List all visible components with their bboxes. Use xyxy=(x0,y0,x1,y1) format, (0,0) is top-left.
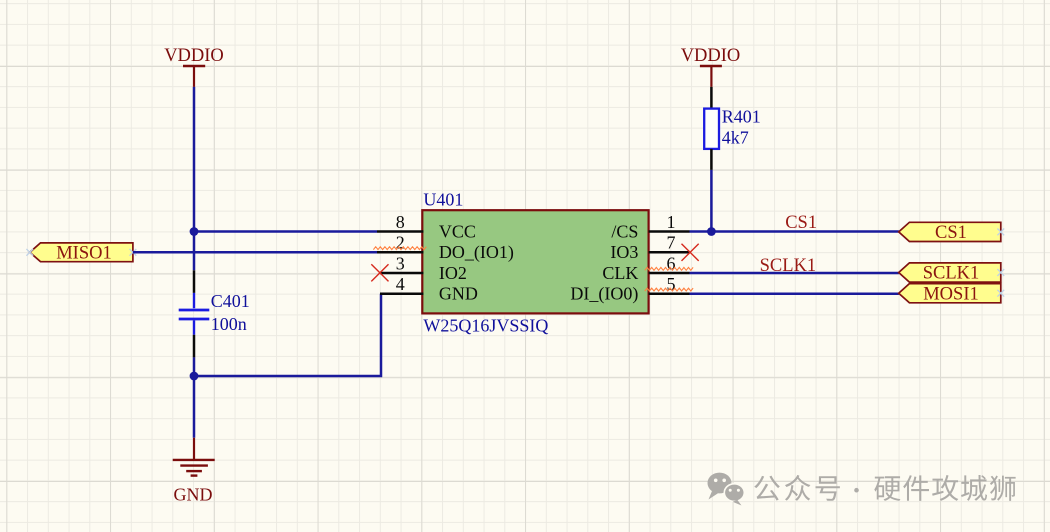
watermark separator dot xyxy=(854,488,859,493)
svg-text:CLK: CLK xyxy=(602,263,638,283)
no-ERC red cross pin 3 xyxy=(371,264,388,281)
junction dot GND node xyxy=(190,372,199,381)
compile squiggle pin 6 xyxy=(645,267,693,270)
port MISO1 xyxy=(30,243,133,262)
wire resistor to CS node xyxy=(710,170,713,232)
junction dot CS node xyxy=(707,227,716,236)
svg-text:VCC: VCC xyxy=(439,221,476,241)
pale cross markers MISO1 xyxy=(26,249,33,256)
capacitor C401 pin 2 (black) xyxy=(193,335,196,358)
ground symbol bars xyxy=(173,459,215,461)
svg-text:GND: GND xyxy=(174,485,213,505)
svg-text:2: 2 xyxy=(396,233,405,253)
wire MOSI1 xyxy=(690,293,899,296)
wire GND node to pin 4 xyxy=(194,294,381,376)
svg-text:100n: 100n xyxy=(211,314,247,334)
svg-text:IO3: IO3 xyxy=(610,242,638,262)
capacitor C401 body xyxy=(193,293,195,308)
svg-text:3: 3 xyxy=(396,253,405,273)
svg-text:IO2: IO2 xyxy=(439,263,467,283)
svg-text:VDDIO: VDDIO xyxy=(681,46,741,66)
svg-text:DI_(IO0): DI_(IO0) xyxy=(570,284,638,305)
wire VDDIO rail vertical (left) xyxy=(193,87,196,270)
wire SCLK1 xyxy=(690,272,899,275)
svg-text:7: 7 xyxy=(667,233,676,253)
wire CS1 xyxy=(690,230,899,233)
svg-text:MOSI1: MOSI1 xyxy=(923,284,979,304)
svg-text:8: 8 xyxy=(396,212,405,232)
svg-text:SCLK1: SCLK1 xyxy=(760,256,817,276)
svg-text:1: 1 xyxy=(667,212,676,232)
svg-text:GND: GND xyxy=(439,284,478,304)
pale cross markers CS1 xyxy=(997,229,1004,236)
svg-text:/CS: /CS xyxy=(611,221,638,241)
wire cap to gnd node xyxy=(193,357,196,437)
svg-text:VDDIO: VDDIO xyxy=(164,46,224,66)
pin 3 (IO2) left xyxy=(380,272,423,275)
compile squiggle pin 5 xyxy=(645,288,693,291)
wire VCC net to pin 8 xyxy=(194,230,377,233)
svg-text:4: 4 xyxy=(396,274,405,294)
svg-text:U401: U401 xyxy=(423,190,463,210)
svg-text:R401: R401 xyxy=(722,106,761,126)
junction dot at VDDIO/VCC node xyxy=(190,227,199,236)
pin 8 (VCC) left xyxy=(377,230,423,233)
resistor R401 body xyxy=(704,109,719,149)
svg-text:MISO1: MISO1 xyxy=(56,243,112,263)
svg-text:W25Q16JVSSIQ: W25Q16JVSSIQ xyxy=(423,316,548,336)
pale cross markers SCLK1 xyxy=(997,269,1004,276)
svg-text:C401: C401 xyxy=(211,291,250,311)
wire MISO1 to pin 2 xyxy=(133,251,377,254)
svg-text:4k7: 4k7 xyxy=(722,127,749,147)
pin 5 (DI_(IO0)) right xyxy=(649,293,690,296)
capacitor C401 pin 1 (black) xyxy=(193,270,196,293)
port CS1 xyxy=(899,222,1001,241)
resistor R401 pin 1 xyxy=(710,87,713,109)
watermark text 公众号 硬件攻城狮 xyxy=(754,475,1015,501)
resistor R401 pin 2 xyxy=(710,149,713,170)
no-ERC red cross pin 7 xyxy=(682,244,699,261)
pin 1 (/CS) right xyxy=(649,230,690,233)
svg-text:CS1: CS1 xyxy=(785,213,817,233)
watermark wechat logo xyxy=(708,473,745,506)
pin 2 (DO_(IO1)) left xyxy=(377,251,423,254)
ground symbol stub xyxy=(193,438,195,459)
pin 4 (GND) left xyxy=(380,293,423,296)
IC U401 body xyxy=(422,210,648,313)
port MOSI1 xyxy=(899,284,1001,303)
svg-text:DO_(IO1): DO_(IO1) xyxy=(439,242,514,263)
svg-text:SCLK1: SCLK1 xyxy=(923,264,980,284)
pale cross markers MOSI1 xyxy=(997,290,1004,297)
power port VDDIO (right) bar symbol xyxy=(700,65,722,68)
pin 7 (IO3) right xyxy=(649,251,690,254)
port SCLK1 xyxy=(899,263,1001,282)
power port VDDIO (left) bar symbol xyxy=(183,65,205,68)
svg-text:CS1: CS1 xyxy=(935,223,967,243)
compile squiggle pin 2 xyxy=(373,247,426,250)
pin 6 (CLK) right xyxy=(649,272,690,275)
